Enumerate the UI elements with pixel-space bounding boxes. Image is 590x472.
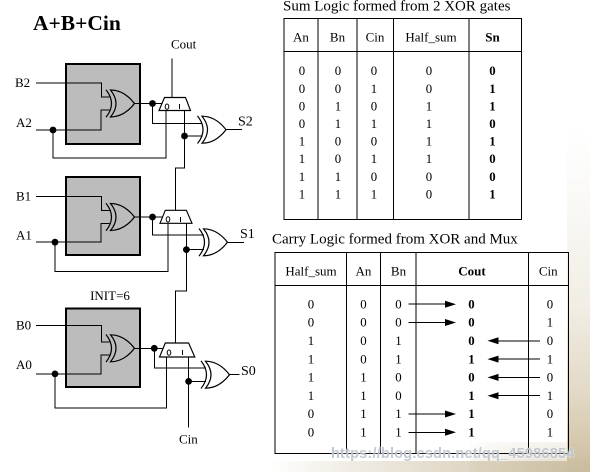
mux U1b bit1: [160, 210, 192, 223]
svg-text:0: 0: [547, 334, 553, 348]
svg-text:0: 0: [395, 297, 401, 311]
svg-text:B1: B1: [16, 189, 31, 204]
wire A0 input: [36, 355, 110, 374]
table sum logic grid: [284, 19, 522, 220]
svg-text:0: 0: [371, 135, 377, 149]
background beige right strip: [567, 130, 590, 472]
svg-text:0: 0: [489, 64, 495, 78]
wire half-sum to output xor bit2: [153, 104, 203, 124]
svg-text:1: 1: [299, 152, 305, 166]
svg-text:Cout: Cout: [458, 264, 486, 279]
svg-text:1: 1: [371, 187, 377, 201]
xor gate U2c sum bit2: [198, 116, 227, 144]
svg-text:0: 0: [299, 82, 305, 96]
xor gate U1a half-sum bit1: [106, 203, 135, 231]
svg-text:0: 0: [468, 334, 474, 348]
table carry logic arrows: [409, 301, 541, 436]
svg-text:B2: B2: [15, 75, 30, 90]
svg-text:1: 1: [468, 407, 474, 421]
module box bit2: [66, 64, 140, 144]
table carry logic data: [308, 297, 553, 439]
svg-text:0: 0: [360, 297, 366, 311]
svg-text:0: 0: [308, 426, 314, 440]
xor gate U1c sum bit1: [199, 229, 228, 257]
svg-text:1: 1: [371, 82, 377, 96]
svg-text:0: 0: [468, 371, 474, 385]
svg-text:1: 1: [308, 352, 314, 366]
svg-text:1: 1: [360, 407, 366, 421]
svg-text:0: 0: [426, 170, 432, 184]
svg-text:1: 1: [371, 152, 377, 166]
svg-text:1: 1: [308, 389, 314, 403]
svg-text:1: 1: [547, 389, 553, 403]
svg-text:An: An: [293, 30, 309, 45]
svg-text:Cin: Cin: [539, 264, 558, 279]
module box bit0: [66, 309, 140, 388]
svg-text:Half_sum: Half_sum: [285, 264, 336, 279]
wire cin to output xor bit1: [186, 249, 204, 251]
svg-text:0: 0: [547, 407, 553, 421]
svg-text:1: 1: [489, 187, 495, 201]
wire xor0a output: [134, 347, 164, 349]
wire mux bit1 port1 down: [185, 223, 187, 249]
node half-sum bit2: [149, 100, 156, 107]
wire B0 input: [36, 325, 110, 342]
wire cin to output xor bit2: [185, 135, 203, 137]
wire mux bit2 port1 down: [184, 111, 186, 137]
svg-text:0: 0: [360, 316, 366, 330]
svg-text:1: 1: [395, 407, 401, 421]
pin label 0 mux bit1: [166, 217, 170, 222]
table sum logic data: [299, 64, 496, 201]
svg-text:1: 1: [547, 316, 553, 330]
svg-text:B0: B0: [16, 318, 31, 333]
svg-text:An: An: [356, 264, 372, 279]
node cin bit2: [181, 133, 188, 140]
node A0 junction: [52, 371, 59, 378]
node cin bit0: [185, 378, 192, 385]
node half-sum bit1: [149, 214, 156, 221]
svg-text:Cin: Cin: [179, 432, 198, 447]
node cin bit1: [183, 246, 190, 253]
svg-text:0: 0: [426, 187, 432, 201]
svg-text:Carry Logic formed from XOR an: Carry Logic formed from XOR and Mux: [272, 232, 518, 248]
wire half-sum to output xor bit0: [154, 348, 206, 368]
pin label 1 mux bit0: [181, 350, 183, 355]
svg-text:1: 1: [395, 426, 401, 440]
svg-text:1: 1: [299, 135, 305, 149]
svg-text:1: 1: [335, 99, 341, 113]
svg-text:S0: S0: [241, 364, 256, 379]
svg-text:0: 0: [371, 64, 377, 78]
svg-text:0: 0: [335, 82, 341, 96]
svg-text:0: 0: [547, 371, 553, 385]
wire xor1a output: [134, 216, 164, 218]
svg-text:0: 0: [547, 297, 553, 311]
watermark: [331, 446, 590, 462]
pin label 0 mux bit0: [167, 350, 171, 355]
svg-text:0: 0: [299, 117, 305, 131]
node A1 junction: [52, 239, 59, 246]
wire carry bit0 to bit1: [176, 250, 187, 343]
wire A1 branch to mux port 0: [55, 223, 168, 271]
table sum logic header: [293, 30, 500, 45]
svg-text:1: 1: [299, 170, 305, 184]
svg-text:1: 1: [489, 99, 495, 113]
wire S2 output: [225, 129, 242, 131]
svg-text:0: 0: [468, 316, 474, 330]
svg-text:Bn: Bn: [330, 30, 346, 45]
svg-text:Sum Logic formed from 2 XOR ga: Sum Logic formed from 2 XOR gates: [283, 0, 511, 15]
svg-text:1: 1: [468, 389, 474, 403]
pin label 1 mux bit1: [179, 217, 181, 222]
svg-text:1: 1: [360, 389, 366, 403]
table carry logic header: [285, 264, 558, 279]
svg-text:1: 1: [335, 170, 341, 184]
svg-text:A1: A1: [16, 228, 32, 243]
mux U2b bit2: [159, 98, 191, 111]
wire Cout: [171, 59, 173, 98]
background beige corner blob: [470, 442, 590, 472]
svg-text:A2: A2: [16, 115, 32, 130]
svg-text:0: 0: [489, 117, 495, 131]
svg-text:1: 1: [489, 135, 495, 149]
svg-text:1: 1: [489, 82, 495, 96]
svg-text:1: 1: [360, 371, 366, 385]
wire mux bit0 port1 down: [188, 357, 190, 381]
svg-text:0: 0: [335, 135, 341, 149]
svg-text:0: 0: [299, 64, 305, 78]
svg-text:1: 1: [308, 371, 314, 385]
module box bit1: [66, 177, 140, 255]
wire B2 input: [36, 83, 110, 97]
svg-text:0: 0: [308, 407, 314, 421]
svg-text:0: 0: [426, 82, 432, 96]
wire S0 output: [229, 374, 240, 376]
wire B1 input: [36, 197, 110, 211]
svg-text:1: 1: [468, 426, 474, 440]
svg-text:1: 1: [335, 187, 341, 201]
node A2 junction: [50, 127, 57, 134]
wire carry bit1 to bit2: [176, 136, 185, 210]
svg-text:Cin: Cin: [366, 30, 385, 45]
svg-text:Half_sum: Half_sum: [405, 30, 456, 45]
svg-text:0: 0: [360, 352, 366, 366]
pin label 1 mux bit2: [178, 104, 180, 109]
pin label 0 mux bit2: [165, 104, 169, 109]
svg-text:1: 1: [335, 117, 341, 131]
svg-text:S2: S2: [238, 115, 253, 130]
node half-sum bit0: [151, 345, 158, 352]
svg-text:1: 1: [426, 117, 432, 131]
svg-text:0: 0: [395, 316, 401, 330]
svg-text:0: 0: [371, 170, 377, 184]
svg-text:0: 0: [335, 152, 341, 166]
svg-text:0: 0: [299, 99, 305, 113]
wire A2 input: [36, 110, 110, 130]
svg-text:Sn: Sn: [485, 30, 500, 45]
xor gate U0a half-sum bit0: [106, 335, 135, 363]
svg-text:1: 1: [299, 187, 305, 201]
table carry logic grid: [275, 253, 568, 454]
wire A2 branch to mux port 0: [53, 111, 166, 159]
svg-text:0: 0: [371, 99, 377, 113]
svg-text:1: 1: [360, 426, 366, 440]
wire xor2a output: [134, 103, 163, 105]
xor gate U0c sum bit0: [201, 361, 230, 389]
svg-text:1: 1: [426, 152, 432, 166]
svg-text:1: 1: [547, 426, 553, 440]
background beige bottom strip: [270, 461, 590, 472]
svg-text:A0: A0: [16, 357, 32, 372]
svg-text:0: 0: [360, 334, 366, 348]
svg-text:A+B+Cin: A+B+Cin: [33, 11, 121, 35]
svg-text:1: 1: [395, 334, 401, 348]
svg-text:1: 1: [308, 334, 314, 348]
svg-text:1: 1: [371, 117, 377, 131]
svg-text:1: 1: [468, 352, 474, 366]
svg-text:1: 1: [395, 352, 401, 366]
svg-text:0: 0: [395, 389, 401, 403]
wire A1 input: [36, 224, 110, 243]
svg-text:S1: S1: [240, 227, 255, 242]
wire half-sum to output xor bit1: [153, 217, 205, 235]
svg-text:INIT=6: INIT=6: [90, 288, 130, 303]
svg-text:1: 1: [547, 352, 553, 366]
svg-text:0: 0: [308, 297, 314, 311]
svg-text:Bn: Bn: [391, 264, 407, 279]
svg-text:0: 0: [468, 297, 474, 311]
svg-text:0: 0: [308, 316, 314, 330]
svg-text:0: 0: [335, 64, 341, 78]
svg-text:0: 0: [426, 64, 432, 78]
wire Cin input: [188, 381, 190, 427]
svg-text:1: 1: [426, 135, 432, 149]
svg-text:1: 1: [426, 99, 432, 113]
wire cin to output xor bit0: [189, 380, 206, 382]
svg-text:0: 0: [489, 152, 495, 166]
svg-text:0: 0: [395, 371, 401, 385]
svg-text:Cout: Cout: [171, 37, 197, 52]
xor gate U2a half-sum bit2: [106, 90, 135, 118]
wire S1 output: [227, 241, 245, 243]
svg-text:0: 0: [489, 170, 495, 184]
mux U0b bit0: [160, 343, 195, 357]
wire A0 branch to mux port 0: [55, 357, 167, 408]
